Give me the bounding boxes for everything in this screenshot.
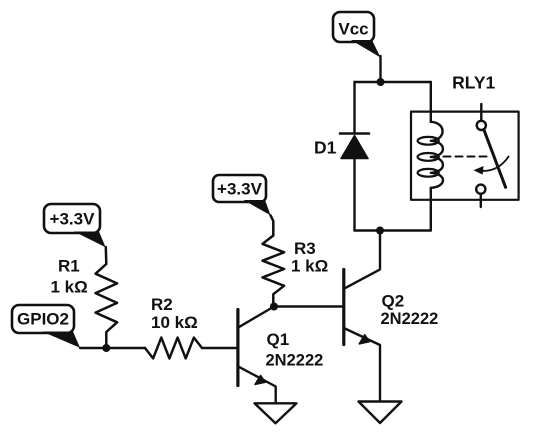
resistor R2 bbox=[145, 338, 202, 359]
relay switch bottom terminal bbox=[476, 185, 485, 194]
node Vcc junction bbox=[377, 78, 385, 86]
transistor Q2 2N2222 bbox=[344, 270, 380, 401]
wire GPIO2 to R2 bbox=[80, 347, 145, 349]
svg-text:10 kΩ: 10 kΩ bbox=[151, 313, 198, 332]
svg-text:+3.3V: +3.3V bbox=[217, 180, 263, 199]
resistor R3 bbox=[263, 215, 285, 306]
wire top horizontal Vcc rail bbox=[355, 81, 431, 83]
wire Vcc drop bbox=[379, 56, 381, 82]
power callout +3.3V (right, feeds R3) bbox=[213, 175, 271, 215]
svg-text:1 kΩ: 1 kΩ bbox=[51, 278, 88, 297]
power callout +3.3V (left, feeds R1) bbox=[44, 204, 106, 247]
wire Q1 base lead bbox=[202, 347, 238, 349]
svg-text:2N2222: 2N2222 bbox=[381, 310, 439, 328]
diode D1 bbox=[340, 134, 369, 231]
wire relay coil top lead bbox=[430, 82, 432, 122]
svg-text:1 kΩ: 1 kΩ bbox=[291, 257, 328, 276]
resistor R1 bbox=[96, 247, 118, 348]
wire Q1 collector lead bbox=[238, 307, 274, 328]
svg-text:Q1: Q1 bbox=[267, 330, 290, 349]
svg-text:D1: D1 bbox=[314, 138, 337, 158]
svg-text:Q2: Q2 bbox=[382, 291, 405, 310]
svg-text:R3: R3 bbox=[294, 239, 316, 258]
relay RLY1 box bbox=[411, 112, 519, 200]
svg-text:R1: R1 bbox=[58, 257, 80, 276]
ground (Q1 emitter) bbox=[255, 403, 297, 423]
power callout Vcc bbox=[333, 12, 381, 58]
ground (Q2 emitter) bbox=[359, 402, 402, 424]
svg-text:RLY1: RLY1 bbox=[452, 73, 495, 93]
wire Q2 base lead bbox=[274, 305, 344, 307]
node R1/GPIO2 junction bbox=[102, 344, 110, 352]
svg-text:GPIO2: GPIO2 bbox=[17, 310, 69, 329]
relay coil L bbox=[418, 122, 443, 188]
transistor Q1 2N2222 bbox=[238, 310, 276, 404]
wire D1 top lead bbox=[353, 82, 355, 134]
wire relay coil bottom lead bbox=[430, 188, 432, 231]
relay switch motion arrow bbox=[474, 157, 509, 175]
signal callout GPIO2 bbox=[12, 305, 80, 348]
node R3/Q1 collector/Q2 base junction bbox=[270, 303, 278, 311]
relay switch blade bbox=[484, 130, 506, 188]
svg-text:2N2222: 2N2222 bbox=[266, 352, 324, 370]
wire Q2 collector lead bbox=[344, 231, 380, 289]
relay switch top terminal bbox=[480, 104, 482, 121]
relay dashed actuation line bbox=[444, 156, 488, 158]
svg-text:R2: R2 bbox=[151, 295, 173, 314]
svg-text:+3.3V: +3.3V bbox=[50, 210, 96, 229]
node Q2 collector junction bbox=[376, 227, 384, 235]
wire bottom horizontal (D1 to coil) bbox=[355, 229, 431, 231]
svg-text:Vcc: Vcc bbox=[338, 19, 368, 38]
